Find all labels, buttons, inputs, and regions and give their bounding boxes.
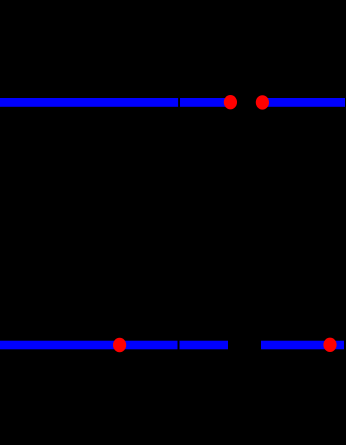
- point P4 (red dot on right segment): [323, 338, 336, 352]
- wire: blue segment left (x=0 to 228): [0, 341, 228, 350]
- wire: blue ray segment left (x=0 to 345): [0, 98, 345, 107]
- wire: blue segment right (x=261 to 344): [261, 341, 344, 350]
- tick mark at x=178 (black over blue): [178, 95, 180, 110]
- number line 1 (top) blue highlight bar: [0, 95, 345, 110]
- tick mark at x=178 (black over blue): [178, 338, 180, 352]
- node: excluded interval between points (black cover): [230, 95, 262, 110]
- point P2 (red dot, right endpoint): [256, 95, 269, 109]
- number line 2 (bottom) blue highlight bar: [0, 338, 344, 353]
- point P3 (red dot on left segment): [113, 338, 126, 352]
- point P1 (red dot, left endpoint): [224, 95, 237, 109]
